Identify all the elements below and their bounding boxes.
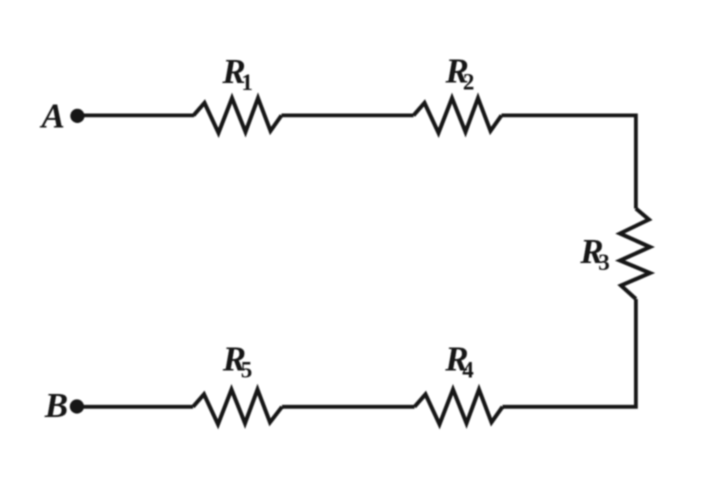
node B (70, 399, 84, 413)
resistor R5 (193, 390, 282, 425)
resistor R4 (415, 390, 503, 425)
label R1 (221, 52, 253, 95)
wire A to R1 (80, 114, 194, 118)
resistor R1 (194, 98, 282, 133)
svg-text:3: 3 (598, 250, 610, 275)
wire R4 to R5 (282, 405, 415, 409)
label R5 (222, 339, 253, 382)
label R4 (444, 339, 474, 382)
wire R2 to top-right corner (502, 115, 636, 208)
resistor R3 (620, 209, 650, 300)
svg-text:1: 1 (241, 70, 253, 95)
resistor R2 (414, 98, 502, 133)
svg-text:5: 5 (241, 358, 253, 383)
svg-text:B: B (44, 386, 68, 425)
label R3 (579, 232, 610, 275)
svg-text:A: A (40, 96, 65, 135)
label R2 (445, 52, 475, 95)
svg-text:4: 4 (462, 357, 474, 382)
wire R1 to R2 (282, 114, 414, 118)
svg-text:2: 2 (463, 69, 475, 94)
node A (70, 109, 84, 123)
wire R5 to B (80, 405, 193, 409)
wire R3 to bottom-right corner (503, 299, 636, 407)
